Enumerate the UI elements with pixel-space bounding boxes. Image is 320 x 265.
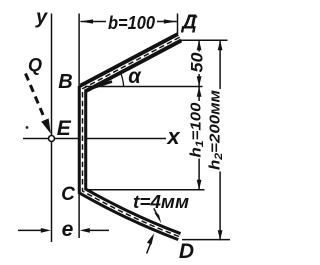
t upper arrowhead [154, 213, 161, 224]
wire profile centerline A-B-C-D thick strip [83, 37, 180, 88]
h1 top arrowhead [197, 87, 202, 97]
dimension 50 line [198, 40, 200, 86]
node A-level extension line [181, 39, 228, 41]
profile dashed centerline [83, 37, 180, 236]
b right arrowhead [164, 19, 177, 23]
svg-text:y: y [35, 7, 48, 29]
force Q dashed arrow [26, 74, 46, 120]
svg-text:t=4мм: t=4мм [133, 192, 189, 212]
extension tick at A for b [177, 14, 179, 35]
h2 bottom arrowhead [218, 230, 223, 240]
svg-text:B: B [58, 71, 72, 93]
h1 bottom arrowhead [197, 180, 202, 190]
wire top flange inner edge sag near B [85, 82, 112, 91]
extension line above B [78, 14, 80, 86]
svg-text:b=100: b=100 [108, 13, 155, 33]
arrowheads [41, 19, 223, 244]
svg-text:50: 50 [187, 52, 206, 73]
node C-level reference line [85, 189, 205, 191]
50 top arrowhead [197, 40, 202, 50]
y axis [51, 14, 53, 243]
t lower arrowhead [147, 233, 154, 244]
node E circle [49, 136, 55, 142]
svg-text:Q: Q [28, 55, 42, 75]
svg-text:Д: Д [180, 11, 196, 33]
node B-level reference line [85, 86, 203, 88]
dimension e line left [18, 229, 44, 231]
svg-text:D: D [179, 240, 194, 263]
Q arrowhead [41, 118, 51, 133]
label b=100 [106, 14, 157, 31]
x axis [23, 138, 166, 140]
b left arrowhead [80, 19, 93, 23]
e left arrowhead [41, 228, 51, 233]
50 bottom arrowhead [197, 76, 202, 86]
h2 top arrowhead [218, 40, 223, 50]
svg-text:E: E [57, 117, 72, 140]
speckle dot top right [195, 15, 198, 18]
svg-text:x: x [166, 124, 180, 149]
angle arc alpha [121, 73, 124, 87]
t leader arrow lower [147, 244, 151, 254]
svg-text:α: α [128, 65, 141, 88]
svg-text:e: e [62, 218, 74, 241]
svg-text:C: C [61, 184, 75, 205]
dimension h2 line [219, 40, 221, 240]
node D-level extension line [182, 239, 230, 241]
dimension h1 line [198, 87, 200, 190]
speckle dot left [26, 126, 29, 129]
dimension e line right [85, 229, 109, 231]
extension line below C [78, 194, 80, 239]
t leader arrow upper [154, 208, 158, 215]
dimension b=100 line [81, 21, 177, 23]
e right arrowhead [80, 228, 90, 233]
svg-text:h1=100: h1=100 [188, 102, 207, 158]
